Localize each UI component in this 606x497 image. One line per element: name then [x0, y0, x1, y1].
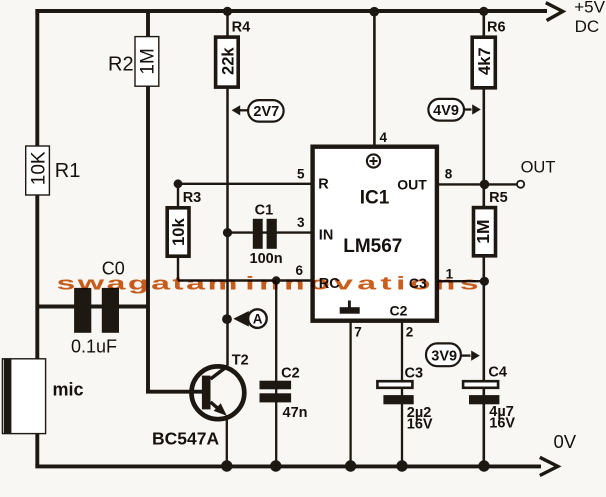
svg-text:mic: mic: [53, 380, 84, 400]
svg-text:0.1uF: 0.1uF: [71, 337, 117, 357]
svg-text:4k7: 4k7: [476, 47, 494, 75]
svg-text:10K: 10K: [29, 151, 50, 185]
svg-text:R5: R5: [489, 190, 508, 206]
svg-text:R: R: [318, 177, 329, 193]
svg-text:OUT: OUT: [521, 159, 556, 177]
svg-text:R4: R4: [232, 19, 251, 35]
svg-text:C4: C4: [488, 365, 507, 381]
svg-text:0V: 0V: [554, 431, 577, 452]
svg-text:16V: 16V: [489, 416, 515, 432]
svg-text:IC1: IC1: [360, 188, 390, 209]
svg-text:47n: 47n: [283, 405, 308, 421]
svg-text:R2: R2: [108, 53, 134, 75]
svg-text:R6: R6: [487, 19, 506, 35]
svg-text:A: A: [253, 312, 263, 327]
svg-text:C2: C2: [390, 302, 408, 318]
svg-text:2V7: 2V7: [253, 104, 279, 120]
svg-text:8: 8: [445, 167, 453, 182]
svg-text:R1: R1: [55, 160, 81, 182]
svg-text:BC547A: BC547A: [152, 429, 219, 449]
svg-text:C3: C3: [405, 366, 424, 382]
svg-text:100n: 100n: [250, 251, 283, 267]
svg-text:10k: 10k: [170, 218, 188, 246]
svg-text:5: 5: [297, 167, 305, 182]
svg-text:R3: R3: [183, 190, 202, 206]
svg-text:2: 2: [406, 324, 414, 339]
svg-text:4V9: 4V9: [433, 103, 459, 119]
svg-text:1M: 1M: [473, 219, 493, 243]
svg-text:7: 7: [354, 324, 362, 339]
svg-text:16V: 16V: [407, 417, 433, 433]
svg-text:C2: C2: [281, 366, 300, 382]
svg-text:1M: 1M: [138, 48, 159, 74]
svg-text:C1: C1: [255, 202, 274, 218]
svg-text:DC: DC: [575, 17, 600, 36]
svg-text:22k: 22k: [220, 47, 238, 75]
svg-text:+5V: +5V: [574, 0, 605, 17]
svg-text:OUT: OUT: [397, 177, 427, 193]
svg-text:swagatam: swagatam: [57, 272, 238, 293]
svg-text:3V9: 3V9: [431, 348, 457, 364]
svg-text:LM567: LM567: [343, 236, 402, 257]
svg-text:IN: IN: [319, 228, 334, 244]
svg-text:T2: T2: [232, 353, 249, 369]
svg-text:4: 4: [380, 130, 388, 145]
svg-text:3: 3: [297, 215, 305, 230]
